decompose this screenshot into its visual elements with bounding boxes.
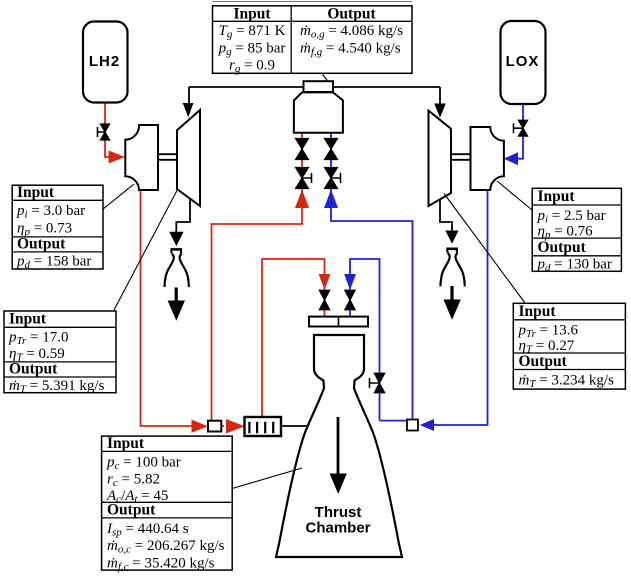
- svg-text:Output: Output: [538, 239, 587, 256]
- svg-text:LH2: LH2: [89, 53, 120, 70]
- svg-text:Input: Input: [519, 303, 557, 320]
- svg-text:Thrust: Thrust: [315, 504, 362, 521]
- svg-text:Input: Input: [9, 311, 47, 328]
- svg-text:Input: Input: [107, 435, 145, 452]
- svg-text:Chamber: Chamber: [305, 520, 370, 537]
- svg-text:LOX: LOX: [506, 53, 540, 70]
- svg-text:Output: Output: [9, 361, 58, 378]
- svg-text:Output: Output: [17, 236, 66, 253]
- svg-text:Output: Output: [519, 353, 568, 370]
- svg-text:Input: Input: [233, 5, 271, 22]
- svg-text:Output: Output: [327, 5, 376, 22]
- svg-text:Input: Input: [538, 188, 576, 205]
- svg-text:Input: Input: [17, 184, 55, 201]
- svg-text:Output: Output: [107, 502, 156, 519]
